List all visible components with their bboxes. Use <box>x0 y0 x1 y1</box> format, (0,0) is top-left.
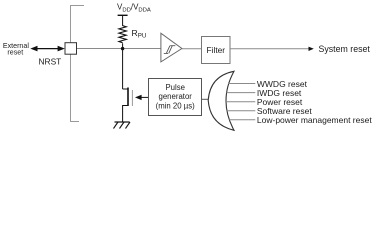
filter box <box>202 37 231 64</box>
transistor Q1 (pull-down MOSFET) <box>123 88 128 90</box>
wire filter to system reset <box>230 48 310 50</box>
wire pulse generator to OR gate <box>202 98 209 100</box>
wire trigger to filter <box>182 48 202 50</box>
svg-text:reset: reset <box>7 49 23 57</box>
chip boundary <box>71 6 85 122</box>
pin square NRST <box>65 43 77 55</box>
gate arrow from pulse generator <box>140 96 149 98</box>
schmitt trigger buffer <box>161 33 182 62</box>
wire resistor to NRST node and down to transistor drain <box>122 43 124 89</box>
arrowhead system reset <box>309 47 314 51</box>
svg-text:Filter: Filter <box>206 45 225 55</box>
resistor RPU zigzag <box>119 26 126 43</box>
wire Low-power reset <box>229 119 255 121</box>
wire NRST horizontal <box>71 48 161 50</box>
power rail bar <box>118 14 128 16</box>
wire IWDG reset <box>227 92 256 94</box>
ground <box>115 121 130 123</box>
svg-text:(min 20 µs): (min 20 µs) <box>156 102 196 111</box>
svg-text:System reset: System reset <box>319 44 371 54</box>
svg-text:generator: generator <box>159 92 193 101</box>
svg-text:Low-power management reset: Low-power management reset <box>257 115 372 125</box>
wire Power reset <box>226 101 255 103</box>
wire Software reset <box>227 110 255 112</box>
svg-text:Pulse: Pulse <box>165 83 185 92</box>
node junction resistor/NRST <box>121 47 124 50</box>
OR gate (mirrored, inputs right) <box>208 71 234 130</box>
external reset double arrow <box>35 48 61 50</box>
wire WWDG reset <box>229 83 256 85</box>
wire power rail to resistor <box>122 15 124 26</box>
pulse generator box <box>149 79 202 116</box>
svg-text:NRST: NRST <box>39 56 62 66</box>
